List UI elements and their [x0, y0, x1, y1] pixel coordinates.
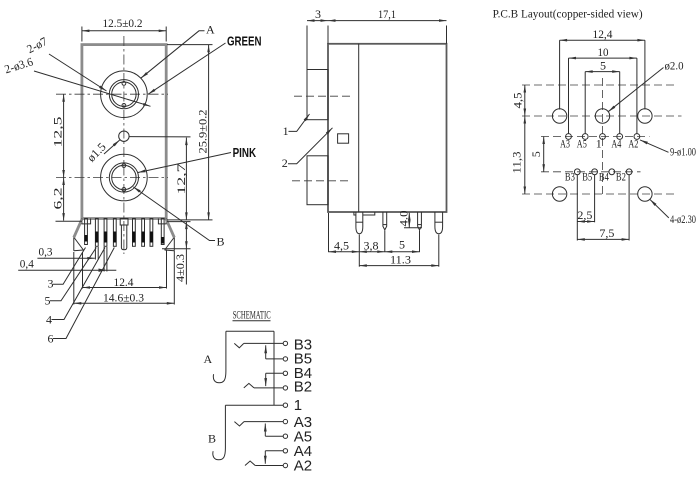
svg-text:6: 6 — [48, 332, 54, 346]
dim 4±0.3 line — [185, 222, 187, 249]
svg-text:4.0: 4.0 — [397, 211, 411, 227]
pin F6 contact band — [142, 232, 145, 243]
label 2-ø3.6 leader — [34, 71, 151, 106]
pcb row2 centerline — [522, 193, 677, 195]
dim 4±0.3 top extension — [167, 221, 191, 223]
jack A barrel (side) — [307, 70, 328, 120]
terminal B2 — [283, 386, 287, 390]
extension from pin S2 — [384, 231, 386, 253]
label ø1.5 leader — [104, 140, 120, 154]
dim 3 right extension — [327, 26, 329, 44]
side pin S1 crossline — [356, 221, 363, 223]
dim 12.4 right extension — [166, 250, 168, 289]
svg-text:B5: B5 — [582, 169, 592, 183]
svg-text:A2: A2 — [628, 136, 638, 150]
jack A centerline — [56, 93, 168, 95]
dim 11,3 vertical line — [524, 116, 526, 194]
dim 12,7 line — [185, 138, 187, 220]
extension from pin S4 — [438, 235, 440, 267]
mount hole row1 left — [552, 109, 566, 123]
wire A3 — [244, 421, 283, 423]
svg-text:11.3: 11.3 — [390, 253, 411, 267]
terminal B5 — [283, 357, 287, 361]
extension from pin S1 — [358, 235, 360, 267]
pin F1 — [85, 219, 88, 245]
wire B3 — [244, 342, 283, 344]
dim 5 vertical line — [543, 137, 545, 172]
dim 0,4 leader line — [18, 269, 116, 271]
dim 4±0.3 bottom extension — [162, 248, 191, 250]
right wing inner diagonal — [165, 238, 174, 250]
jack B barrel (side) — [307, 156, 328, 205]
jack B sleeve hook — [213, 405, 226, 460]
dim 11.3 line — [359, 265, 439, 267]
label 9-ø1.00 leader — [640, 140, 669, 152]
svg-text:B: B — [208, 432, 216, 446]
pad B2 — [626, 169, 632, 175]
svg-text:A: A — [204, 352, 213, 366]
svg-text:4,5: 4,5 — [511, 93, 525, 109]
pad B4 — [609, 169, 615, 175]
svg-text:3,8: 3,8 — [364, 238, 379, 252]
terminal A5 — [283, 434, 287, 438]
dim 10 left extension — [568, 58, 570, 133]
dim 3 line — [307, 20, 328, 22]
pin F5 contact band — [132, 232, 135, 243]
label ø2.0 leader — [608, 68, 663, 112]
svg-text:0,3: 0,3 — [39, 245, 53, 259]
dim 0,3 extension lines — [94, 247, 96, 260]
pad A4 — [617, 134, 623, 140]
jack B outer circle — [101, 154, 148, 201]
svg-text:B3: B3 — [565, 169, 575, 183]
switch contact A2 — [245, 461, 255, 466]
pcb rowB centerline — [541, 171, 641, 173]
svg-text:2-ø7: 2-ø7 — [24, 34, 49, 56]
left wing inner diagonal — [74, 238, 83, 250]
label 3 leader — [53, 248, 86, 285]
svg-text:2,5: 2,5 — [577, 208, 592, 222]
left wing bottom — [74, 249, 84, 252]
front view body — [82, 45, 166, 219]
dim 4.0 bottom tick — [404, 227, 422, 229]
mount hole row2 left — [552, 187, 566, 201]
wire B5 — [266, 358, 284, 360]
mount hole row2 right — [638, 187, 652, 201]
label PINK leader — [138, 153, 232, 173]
dim 0,4 arrowhead — [99, 269, 108, 272]
pcb vertical centerline — [602, 78, 604, 197]
side pin S2 crossline — [383, 224, 387, 226]
svg-text:A: A — [206, 23, 215, 37]
dim 14.6±0.3 left extension — [73, 252, 75, 305]
svg-text:6,2: 6,2 — [51, 188, 65, 210]
svg-text:B: B — [217, 235, 225, 249]
dim 14.6±0.3 line — [74, 302, 175, 304]
svg-text:B2: B2 — [294, 379, 312, 396]
terminal A3 — [283, 419, 287, 423]
center hole extension line — [130, 136, 191, 138]
center hole ø1.5 — [119, 131, 129, 141]
pin F6 — [142, 219, 145, 247]
label 2-ø7 leader — [49, 54, 107, 91]
pin F2 — [95, 219, 98, 247]
right wing outer diagonal — [166, 219, 174, 237]
svg-text:4±0.3: 4±0.3 — [173, 254, 187, 282]
arrow B4 to B2 — [265, 373, 267, 386]
label 1 leader — [289, 114, 310, 131]
side pin S2 — [383, 212, 387, 230]
dim 17,1 line — [328, 20, 447, 22]
label GREEN leader — [148, 43, 226, 94]
svg-text:1: 1 — [283, 124, 289, 138]
side small square window — [338, 134, 349, 143]
pin F8 contact band — [161, 237, 164, 244]
svg-text:17,1: 17,1 — [378, 7, 396, 21]
label 2 leader — [288, 128, 333, 164]
svg-text:11,3: 11,3 — [510, 152, 524, 174]
dim 4.0 line — [408, 213, 410, 228]
right wing bottom — [165, 249, 175, 252]
jack A top wire — [226, 330, 274, 332]
svg-text:B2: B2 — [616, 169, 626, 183]
pin F7 — [150, 219, 153, 247]
label B leader — [133, 187, 215, 241]
svg-text:5: 5 — [45, 294, 51, 308]
dim 25.9±0.2 top extension — [167, 44, 213, 46]
side pin S4 crossline — [435, 221, 443, 223]
jack B top pin hole — [122, 164, 126, 168]
mount hole row1 right — [638, 109, 652, 123]
svg-text:9-ø1.00: 9-ø1.00 — [670, 144, 696, 158]
svg-text:4: 4 — [46, 313, 52, 327]
dim 12.5±0.2 right extension — [165, 27, 167, 42]
svg-text:2-ø3.6: 2-ø3.6 — [3, 55, 35, 77]
dim 7,5 right extension — [628, 175, 630, 241]
side pin S3 — [418, 212, 422, 230]
side body — [328, 44, 447, 212]
switch contact B3 — [234, 343, 244, 347]
dim 3 left extension — [306, 26, 308, 70]
pcb rowA centerline — [541, 136, 650, 138]
dim 6,2 bottom extension — [56, 220, 83, 222]
svg-text:B4: B4 — [599, 169, 609, 183]
svg-text:PINK: PINK — [233, 145, 257, 160]
jack B middle circle — [109, 163, 138, 192]
svg-text:4,5: 4,5 — [334, 238, 349, 252]
dim 5 line — [385, 251, 420, 253]
jack A top pin hole — [122, 82, 126, 86]
pin F3 — [104, 219, 107, 247]
arrow A4 to A2 — [264, 451, 266, 464]
dim 10 right extension — [636, 58, 638, 134]
label 5 leader — [50, 248, 96, 301]
label 6 leader — [53, 248, 114, 339]
terminal B4 — [283, 371, 287, 375]
side inner vertical line — [358, 44, 360, 212]
pad A5 — [582, 134, 588, 140]
dim 14.6±0.3 right extension — [173, 251, 175, 305]
mount hole row1 center — [595, 109, 609, 123]
side pin S1 (bullet) — [356, 212, 363, 234]
dim 5 line — [585, 71, 620, 73]
terminal A2 — [283, 463, 287, 467]
svg-text:A4: A4 — [611, 136, 621, 150]
schematic title underline — [233, 320, 271, 322]
switch contact A3 — [234, 422, 244, 426]
svg-text:10: 10 — [598, 45, 609, 59]
svg-text:GREEN: GREEN — [227, 34, 262, 49]
pcb top dashed line — [522, 84, 678, 86]
svg-text:ø2.0: ø2.0 — [665, 59, 684, 73]
svg-text:A3: A3 — [560, 136, 570, 150]
dim 4,5 vertical line — [524, 85, 526, 116]
pin F4 — [113, 219, 116, 247]
extension from pin S3 — [419, 231, 421, 253]
pad A2 — [634, 134, 640, 140]
pin F2 contact band — [95, 232, 98, 243]
dim 12.4 line — [83, 287, 167, 289]
pin F5 — [133, 219, 136, 247]
pin F8 — [161, 219, 164, 245]
dim 0,4 extension lines — [103, 247, 105, 272]
jack B centerline — [56, 177, 168, 179]
pin F1 contact band — [84, 235, 87, 242]
wire A4 — [265, 450, 283, 452]
jack B axis dashed — [292, 180, 351, 182]
left step boss — [82, 219, 91, 224]
center shaft — [121, 225, 126, 250]
dim 6,2 line — [63, 178, 65, 221]
svg-text:P.C.B Layout(copper-sided view: P.C.B Layout(copper-sided view) — [493, 7, 643, 21]
dim 12.5±0.2 left extension — [81, 27, 83, 42]
svg-text:ø1.5: ø1.5 — [84, 140, 109, 165]
svg-text:5: 5 — [529, 151, 543, 157]
label 4-ø2.30 leader — [650, 199, 669, 218]
pin F7 contact band — [150, 232, 153, 243]
side bottom step right — [363, 212, 375, 215]
terminal 1 — [283, 403, 287, 407]
dim 4,5 line — [329, 251, 360, 253]
dim 12,5 line — [63, 94, 65, 177]
arrow B5 to B3 — [265, 345, 267, 359]
svg-text:25.9±0.2: 25.9±0.2 — [196, 110, 210, 154]
switch contact B2 — [244, 383, 254, 388]
jack B bottom pin hole — [122, 188, 126, 192]
wire A5 — [265, 435, 283, 437]
dim 10 line — [569, 57, 637, 59]
dim 7,5 line — [577, 238, 629, 240]
svg-text:A2: A2 — [294, 458, 312, 475]
terminal B3 — [283, 341, 287, 345]
extension from body left — [328, 213, 330, 252]
right wing outer vertical — [173, 238, 175, 251]
dim 0,3 leader line — [37, 257, 94, 259]
dim 25.9±0.2 line — [208, 45, 210, 220]
svg-text:14.6±0.3: 14.6±0.3 — [103, 290, 144, 304]
vertical centerline — [123, 36, 125, 254]
svg-text:3: 3 — [48, 277, 54, 291]
svg-text:4-ø2.30: 4-ø2.30 — [670, 212, 696, 226]
svg-text:A5: A5 — [577, 136, 587, 150]
svg-text:3: 3 — [315, 7, 321, 21]
svg-text:5: 5 — [399, 238, 405, 252]
jack A sleeve hook — [213, 331, 226, 383]
right step boss — [158, 219, 166, 224]
dim 12.4 left extension — [82, 252, 84, 289]
label A leader — [141, 31, 205, 78]
wire 1 — [225, 404, 283, 406]
wire A2 — [255, 465, 283, 467]
svg-text:1: 1 — [294, 397, 302, 414]
pad A3 — [566, 134, 572, 140]
dim 2,5 right extension — [594, 175, 596, 222]
dim 12,4 left extension — [559, 40, 561, 109]
jack A outer circle — [101, 71, 148, 118]
bus vertical wire — [273, 331, 275, 405]
svg-text:2: 2 — [282, 156, 288, 170]
wire B4 — [266, 372, 284, 374]
svg-text:SCHEMATIC: SCHEMATIC — [233, 308, 271, 322]
left wing outer diagonal — [74, 219, 82, 237]
dim 25.9±0.2 bottom extension — [167, 219, 213, 221]
side pin S4 (bullet) — [435, 212, 443, 234]
dim 2,5 line — [577, 221, 594, 223]
svg-text:0,4: 0,4 — [20, 257, 34, 271]
svg-text:12,4: 12,4 — [593, 27, 613, 41]
arrow A5 to A3 — [264, 424, 266, 437]
dim 5 left extension — [584, 72, 586, 134]
pcb row1 centerline — [522, 115, 682, 117]
svg-text:12.5±0.2: 12.5±0.2 — [103, 16, 143, 30]
dim 12.5±0.2 line — [82, 30, 166, 32]
dim 2,5 left extension — [576, 175, 578, 241]
center shaft base — [120, 219, 128, 226]
svg-text:12,5: 12,5 — [51, 117, 65, 148]
svg-text:12,7: 12,7 — [174, 164, 188, 195]
jack B inner circle — [112, 165, 136, 189]
side bottom step left — [354, 212, 356, 215]
pad B3 — [574, 169, 580, 175]
terminal A4 — [283, 449, 287, 453]
dim 4±0.3 line tail — [185, 249, 187, 285]
side pin S3 crossline — [418, 224, 422, 226]
pad B5 — [592, 169, 598, 175]
jack A middle circle — [109, 80, 138, 109]
jack A bottom pin hole — [122, 104, 126, 108]
svg-text:12.4: 12.4 — [114, 275, 134, 289]
pin F3 contact band — [104, 232, 107, 243]
pin F4 contact band — [113, 232, 116, 243]
label 4 leader — [52, 248, 106, 320]
jack A inner circle — [112, 82, 136, 106]
wire B2 — [254, 387, 283, 389]
svg-text:7,5: 7,5 — [599, 226, 614, 240]
jack A axis dashed — [294, 95, 351, 97]
svg-text:5: 5 — [600, 58, 606, 72]
pad 1 — [600, 134, 606, 140]
left wing outer vertical — [73, 238, 75, 251]
dim 12,4 right extension — [644, 40, 646, 109]
dim 17,1 right extension — [446, 26, 448, 44]
dim 3,8 line — [359, 251, 385, 253]
dim 5 right extension — [619, 72, 621, 134]
svg-text:1: 1 — [596, 136, 602, 150]
dim 12,4 line — [560, 39, 645, 41]
